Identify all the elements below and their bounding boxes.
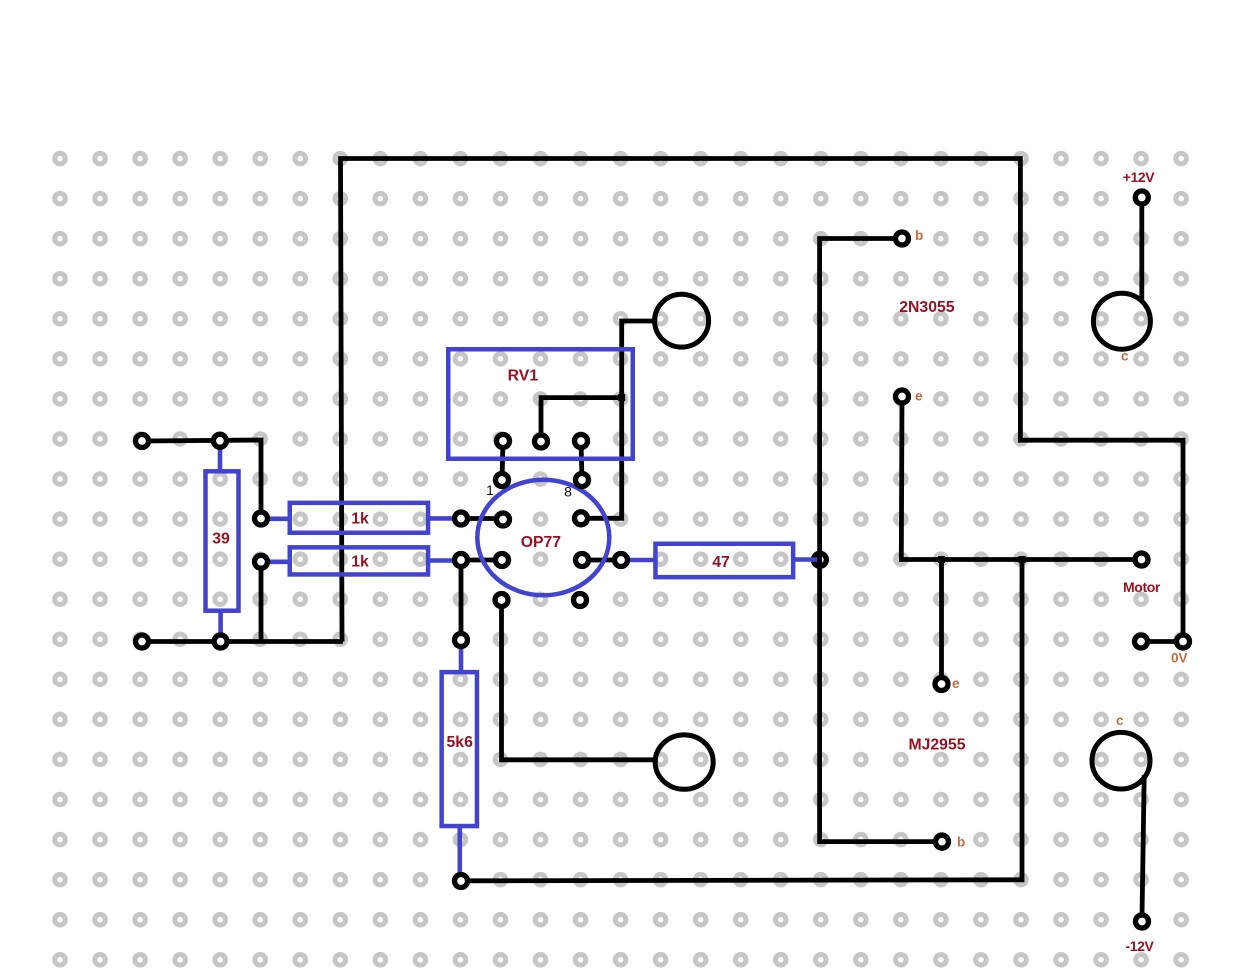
junction wiper tap <box>618 394 625 401</box>
blue wire node K to 47 <box>621 558 654 563</box>
pin e of Q2 MJ2955 <box>935 678 948 691</box>
pad RV1 pin A <box>497 435 510 448</box>
wire RV1 pin B to op-amp pin 8 <box>581 441 582 480</box>
transistor Q1 2N3055 collector circle <box>1093 293 1150 349</box>
transistor Q2 MJ2955 collector circle <box>1092 732 1150 789</box>
svg-text:8: 8 <box>564 484 572 500</box>
pin b of Q2 MJ2955 <box>936 835 949 848</box>
wire node H down to node I <box>459 560 464 640</box>
pad node K2 resistor 47 right (ring only, under base wire) <box>813 553 826 566</box>
svg-text:b: b <box>957 835 965 850</box>
terminal 0V right <box>1177 635 1190 648</box>
pin e of Q1 2N3055 <box>896 390 909 403</box>
node K resistor 47 left pad <box>615 554 628 567</box>
node C left-bottom terminal <box>136 635 149 648</box>
loop circle A (to RV1/pin7 net) <box>655 294 709 347</box>
blue wire node I to 5k6 <box>459 640 464 671</box>
trimmer RV1 body <box>448 349 633 459</box>
resistor 5k6 body <box>442 672 477 826</box>
wire Q2 collector circle to -12V terminal <box>1142 775 1144 917</box>
blue wire 39 to node D <box>218 613 223 642</box>
op-amp U1 pin 1 <box>496 474 509 487</box>
node A left-top terminal <box>136 435 149 448</box>
svg-text:0V: 0V <box>1171 650 1188 665</box>
blue wire 5k6 to node J <box>457 828 462 882</box>
node B resistor 39 top pad <box>213 434 226 447</box>
svg-text:c: c <box>1116 713 1124 728</box>
node F 1k lower left pad <box>255 555 268 568</box>
wire node H to op-amp pin 3 <box>461 558 502 563</box>
loop circle B (op-amp pin 4 net) <box>655 735 713 789</box>
junction on motor line at x=1022 <box>1019 556 1026 563</box>
terminal Motor <box>1135 553 1148 566</box>
pad RV1 wiper <box>535 435 548 448</box>
op-amp U1 OP77 body <box>477 480 609 596</box>
svg-text:5k6: 5k6 <box>447 734 474 751</box>
svg-text:39: 39 <box>212 530 230 547</box>
svg-text:Motor: Motor <box>1123 579 1161 595</box>
resistor 47 body <box>655 544 793 577</box>
op-amp U1 pin 7 <box>575 512 588 525</box>
wire top-left input link A-B-E <box>142 440 261 518</box>
blue wire 47 right stub <box>795 557 819 562</box>
wire base rail: Q1 b left, down, to Q2 b <box>820 239 942 842</box>
resistor 39 body <box>206 471 239 610</box>
terminal -12V <box>1136 915 1149 928</box>
terminal 0V left <box>1135 635 1148 648</box>
wire node G to op-amp pin 2 <box>461 516 503 521</box>
wire op-amp pin 7 up to loop circle A <box>581 321 655 518</box>
svg-text:c: c <box>1121 349 1129 364</box>
wire op-amp pin 6 to node K <box>582 558 621 563</box>
blue wire node B to 39 <box>218 441 223 470</box>
svg-text:RV1: RV1 <box>508 368 539 385</box>
op-amp U1 pin 4 <box>495 594 508 607</box>
blue wire 1k lower to node H <box>430 558 462 563</box>
op-amp U1 pin 2 <box>497 513 510 526</box>
node G 1k upper right pad <box>455 512 468 525</box>
blue wire 1k upper to node G <box>430 516 462 521</box>
resistor R2 1k lower body <box>290 547 428 574</box>
svg-text:e: e <box>915 389 923 404</box>
op-amp U1 pin 5 <box>574 594 587 607</box>
svg-text:1k: 1k <box>351 511 369 528</box>
node E 1k upper left pad <box>255 512 268 525</box>
pad RV1 pin B <box>575 435 588 448</box>
svg-text:OP77: OP77 <box>521 534 562 551</box>
svg-text:b: b <box>915 228 923 243</box>
op-amp U1 pin 6 <box>576 554 589 567</box>
blue wire node F to 1k lower <box>261 559 289 564</box>
wire RV1 wiper branch <box>541 398 622 442</box>
svg-text:+12V: +12V <box>1123 169 1156 185</box>
wire op-amp pin 4 to loop circle B <box>502 600 657 760</box>
svg-text:-12V: -12V <box>1126 938 1155 954</box>
svg-text:MJ2955: MJ2955 <box>908 737 965 754</box>
node J resistor 5k6 bottom pad <box>455 875 468 888</box>
svg-text:e: e <box>952 676 960 691</box>
op-amp U1 pin 3 <box>496 554 509 567</box>
wire +12V terminal to Q1 collector circle <box>1139 198 1144 300</box>
node I resistor 5k6 top pad <box>455 634 468 647</box>
wire RV1 pin A to op-amp pin 1 <box>502 441 503 480</box>
resistor R1 1k upper body <box>290 503 428 533</box>
wire 0V terminal link <box>1141 639 1183 644</box>
junction on motor line at x=941 <box>938 556 945 563</box>
op-amp U1 pin 8 <box>576 474 589 487</box>
svg-text:1: 1 <box>486 482 494 498</box>
wire Q2 emitter branch <box>939 560 944 685</box>
svg-text:1k: 1k <box>351 554 369 571</box>
node H 1k lower right pad <box>455 554 468 567</box>
pin b of Q1 2N3055 <box>896 232 909 245</box>
svg-text:2N3055: 2N3055 <box>899 299 955 316</box>
wire bottom-left ground run <box>142 639 343 644</box>
wire node F to bottom rail <box>259 562 264 642</box>
blue wire node E to 1k upper <box>261 516 289 521</box>
wire emitter rail: Q1 e down, Motor line <box>901 397 1141 560</box>
terminal +12V <box>1135 191 1148 204</box>
svg-text:47: 47 <box>712 554 730 571</box>
wire branch to bottom run and 5k6 <box>461 560 1022 881</box>
node D resistor 39 bottom pad <box>214 635 227 648</box>
wire +12V rail: top run, right drop, jog to 0V <box>341 159 1184 642</box>
